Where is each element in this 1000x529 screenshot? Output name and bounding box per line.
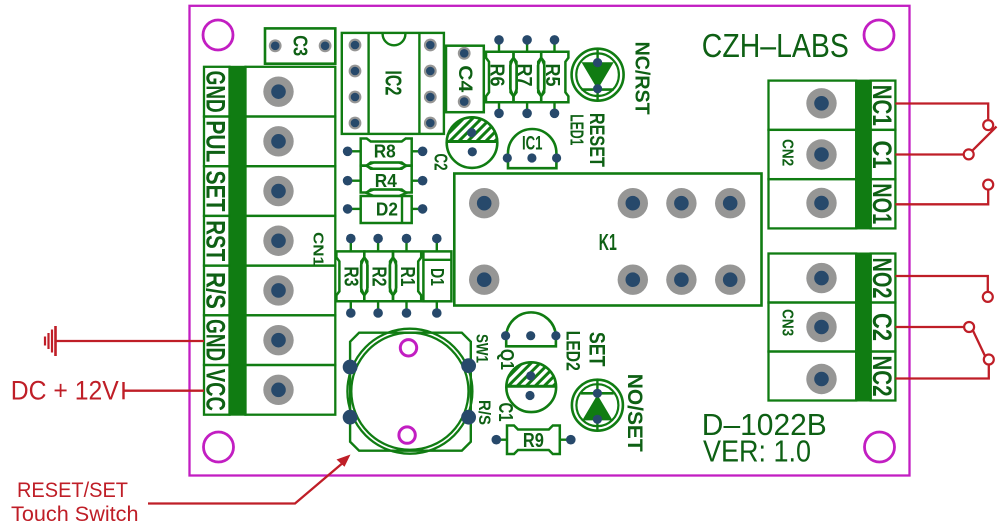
transistor Q1 (501, 312, 561, 346)
svg-text:VER: 1.0: VER: 1.0 (703, 433, 811, 468)
svg-text:CN2: CN2 (779, 139, 796, 166)
svg-text:RESET: RESET (585, 113, 608, 167)
svg-text:IC1: IC1 (522, 133, 543, 154)
svg-text:C2: C2 (867, 313, 897, 341)
wire NC1 contact (895, 104, 993, 131)
mounting hole H2 (864, 20, 894, 50)
wire NO1 contact (895, 180, 993, 205)
connector CN1 terminal block (200, 67, 335, 415)
resistor R9 (492, 426, 576, 455)
svg-text:R8: R8 (374, 142, 396, 162)
label RESET LED1 (567, 113, 609, 167)
wire C1 contact with lever (895, 127, 996, 160)
svg-text:SET: SET (585, 332, 610, 367)
svg-text:Touch Switch: Touch Switch (11, 503, 139, 526)
svg-text:GND: GND (200, 71, 230, 113)
wire DC+12V to CN1 VCC (124, 382, 205, 399)
svg-text:CN3: CN3 (779, 309, 796, 336)
svg-text:K1: K1 (599, 229, 617, 255)
resistor R3 (336, 234, 364, 318)
svg-text:LED1: LED1 (567, 114, 587, 145)
svg-text:RST: RST (200, 220, 230, 261)
svg-text:DC + 12V: DC + 12V (11, 375, 119, 405)
model D-1022B (702, 407, 827, 442)
svg-text:SET: SET (200, 171, 230, 212)
label SW1 (473, 334, 492, 363)
net label NO/SET (623, 374, 646, 452)
svg-text:R/S: R/S (200, 272, 230, 309)
resistor R1 (393, 234, 421, 318)
svg-text:CZH–LABS: CZH–LABS (702, 27, 849, 64)
touch switch SW1 (343, 329, 476, 454)
resistor body mark between R2/R1 (390, 257, 397, 296)
version VER: 1.0 (703, 433, 811, 468)
capacitor C1 (477, 354, 594, 412)
svg-text:D1: D1 (427, 268, 447, 286)
LED LED2 (NO/SET indicator) (572, 380, 623, 431)
connector CN2 terminal block (769, 81, 898, 229)
svg-text:IC2: IC2 (381, 70, 407, 95)
svg-text:NC2: NC2 (867, 356, 897, 397)
ground symbol (45, 326, 56, 356)
resistor R4 (343, 166, 428, 193)
svg-text:R3: R3 (339, 267, 361, 287)
svg-text:D2: D2 (376, 199, 398, 219)
resistor body mark between R7/R5 (538, 58, 545, 97)
svg-text:Q1: Q1 (497, 349, 517, 370)
resistor body mark R8 (366, 163, 407, 169)
connector CN3 terminal block (769, 254, 898, 401)
label RESET/SET Touch Switch (11, 479, 139, 526)
label DC + 12V (11, 375, 119, 405)
label CN1 (310, 232, 327, 266)
mounting hole H3 (204, 432, 234, 462)
leader arrow to SW1 (148, 455, 351, 504)
resistor body mark R4 (366, 190, 407, 196)
resistor R6 (486, 35, 514, 118)
mounting hole H1 (203, 20, 233, 50)
svg-text:C1: C1 (867, 141, 897, 169)
board outline (190, 6, 910, 476)
svg-text:GND: GND (200, 319, 230, 361)
svg-text:NO1: NO1 (867, 183, 897, 224)
svg-text:R6: R6 (486, 64, 508, 87)
svg-text:R/S: R/S (475, 400, 494, 425)
wire C2 contact with lever (895, 322, 985, 356)
label Q1 (497, 349, 517, 370)
resistor R5 (541, 35, 569, 118)
op-amp IC2 (342, 33, 444, 134)
capacitor C4 (446, 46, 484, 113)
title CZH-LABS (702, 27, 849, 64)
svg-text:PUL: PUL (200, 120, 230, 162)
svg-text:R2: R2 (367, 267, 389, 287)
resistor R7 (513, 35, 541, 118)
wire ground to CN1 GND (56, 340, 205, 342)
svg-text:R9: R9 (523, 430, 544, 452)
svg-text:LED2: LED2 (562, 331, 583, 371)
svg-text:NC/RST: NC/RST (631, 42, 653, 115)
svg-text:R4: R4 (375, 171, 397, 191)
label R/S (475, 400, 494, 425)
svg-text:NO2: NO2 (867, 258, 897, 299)
label CN3 (779, 309, 796, 336)
svg-text:NC1: NC1 (867, 85, 897, 126)
net label NC/RST (631, 42, 653, 115)
svg-text:RESET/SET: RESET/SET (17, 479, 128, 502)
svg-text:CN1: CN1 (310, 232, 327, 266)
label SET LED2 (562, 331, 610, 371)
wire NC2 contact (895, 355, 993, 379)
wire NO2 contact (895, 276, 992, 302)
LED LED1 (NC/RST indicator) (572, 49, 624, 101)
capacitor C2 (418, 110, 535, 168)
resistor body mark between R6/R7 (510, 58, 517, 97)
svg-text:NO/SET: NO/SET (623, 374, 646, 452)
relay K1 (454, 174, 761, 306)
label C1 (494, 403, 516, 422)
svg-text:SW1: SW1 (473, 334, 492, 363)
diode D2 (343, 196, 428, 223)
svg-text:R1: R1 (396, 267, 418, 287)
svg-text:C4: C4 (454, 65, 475, 92)
svg-text:VCC: VCC (200, 369, 230, 411)
label CN2 (779, 139, 796, 166)
mounting hole H4 (865, 432, 895, 462)
regulator IC1 (503, 129, 562, 168)
label C2 (431, 154, 451, 171)
resistor R8 (343, 139, 428, 166)
resistor body mark between R3/R2 (361, 257, 368, 296)
capacitor C3 (265, 28, 335, 63)
diode D1 (423, 234, 451, 318)
svg-text:C2: C2 (431, 154, 451, 171)
svg-text:C1: C1 (494, 403, 516, 422)
resistor R2 (364, 234, 393, 318)
svg-text:C3: C3 (289, 35, 311, 56)
